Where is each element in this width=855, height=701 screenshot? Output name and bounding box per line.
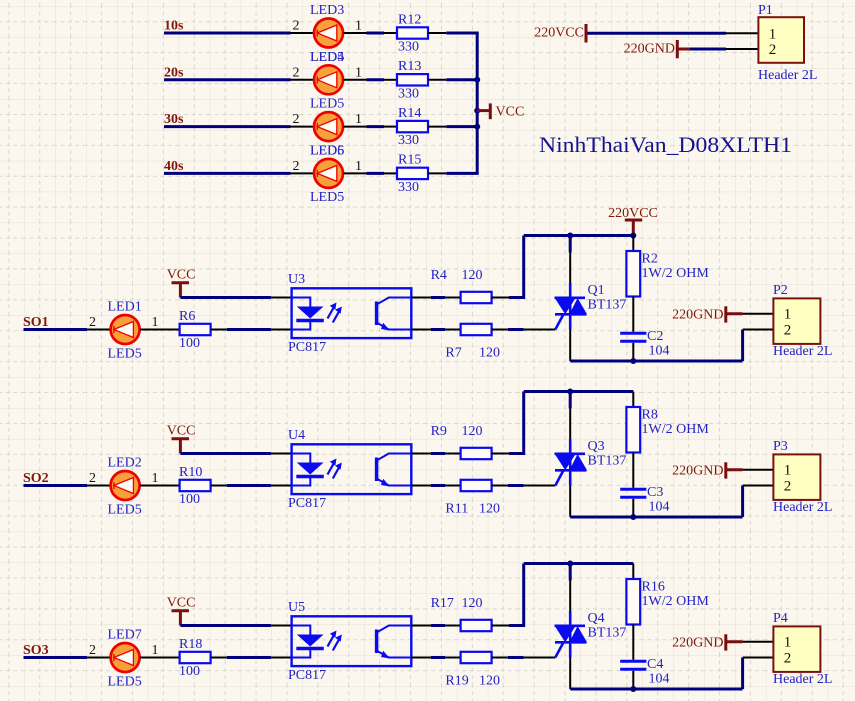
P4 pin 1 (743, 641, 774, 643)
wire R11 to Q3 gate (508, 484, 524, 487)
net label 30s (164, 112, 184, 127)
LED LED2 pin 2 (87, 471, 110, 486)
label Q4 (588, 611, 605, 626)
wire LED LED3 to R12 (367, 32, 385, 35)
wire LED LED5 to R14 (367, 125, 385, 128)
label U5 (288, 600, 305, 615)
svg-text:P2: P2 (773, 283, 788, 298)
svg-text:LED1: LED1 (108, 300, 142, 315)
label LED1 (108, 300, 142, 315)
svg-text:SO3: SO3 (23, 643, 49, 658)
svg-text:C3: C3 (647, 485, 663, 500)
svg-text:R15: R15 (398, 153, 421, 168)
wire 220GND to P1 pin 2 (690, 48, 726, 51)
svg-text:SO2: SO2 (23, 471, 49, 486)
svg-text:1: 1 (355, 65, 362, 80)
wire R9 up to rail (509, 392, 524, 456)
resistor R12 left pin (384, 32, 397, 34)
resistor R18 100 (179, 637, 211, 679)
svg-text:220GND: 220GND (672, 463, 723, 478)
LED LED3 pin 1 (344, 19, 367, 34)
svg-text:2: 2 (89, 643, 96, 658)
svg-text:NinhThaiVan_D08XLTH1: NinhThaiVan_D08XLTH1 (539, 132, 792, 157)
resistor R13 330 (397, 59, 428, 101)
U5 pin 2 (271, 657, 292, 659)
LED LED1 pin 1 (140, 315, 166, 330)
P2 pin 1 (743, 313, 774, 315)
resistor R19 right pin (492, 657, 508, 659)
wire up to P3 pin 2 (741, 486, 744, 518)
svg-text:R18: R18 (179, 637, 202, 652)
LED LED1 (111, 315, 140, 344)
svg-text:104: 104 (649, 672, 670, 687)
Q1 pin T2 top (569, 236, 572, 284)
triac Q1 BT137 (555, 283, 588, 330)
svg-text:R8: R8 (642, 408, 658, 423)
svg-text:1: 1 (784, 307, 792, 323)
junction bottom rail at C2 (630, 358, 636, 364)
svg-text:120: 120 (479, 502, 500, 517)
label LED5 footprint (108, 347, 142, 362)
resistor R8 1W/2 OHM (626, 407, 709, 453)
label LED5 footprint (108, 503, 142, 518)
LED LED6 pin 1 (344, 159, 367, 174)
svg-text:1: 1 (152, 643, 159, 658)
wire R13 to bus (446, 78, 478, 81)
resistor R9 left pin (445, 453, 461, 455)
svg-text:R4: R4 (431, 268, 447, 283)
resistor R13 left pin (384, 79, 397, 81)
svg-text:R19: R19 (445, 674, 468, 689)
resistor R16 top pin (632, 564, 634, 580)
svg-text:1W/2 OHM: 1W/2 OHM (642, 266, 710, 281)
resistor R4 left pin (445, 297, 461, 299)
wire vertical bus (476, 33, 479, 173)
title text (539, 132, 792, 157)
junction bottom rail at C3 (630, 514, 636, 520)
Q4 pin T1 bottom (569, 658, 571, 690)
wire 10s to LED (164, 32, 291, 35)
capacitor C4 104 (620, 657, 669, 687)
svg-text:120: 120 (462, 268, 483, 283)
svg-text:30s: 30s (164, 112, 184, 127)
label Q3 (588, 439, 605, 454)
power port 220VCC (net to P1) (534, 24, 586, 43)
svg-text:LED5: LED5 (310, 97, 344, 112)
svg-text:2: 2 (293, 65, 300, 80)
svg-text:2: 2 (293, 159, 300, 174)
svg-text:LED7: LED7 (108, 628, 142, 643)
LED LED3 (314, 19, 343, 48)
resistor R6 left pin (166, 329, 180, 331)
power port 220GND row SO2 (672, 462, 742, 478)
P3 pin 2 (743, 485, 774, 487)
wire 30s to LED (164, 125, 291, 128)
svg-text:220GND: 220GND (624, 41, 675, 56)
wire VCC to U5 pin 1 (180, 624, 271, 627)
svg-text:Q3: Q3 (588, 439, 605, 454)
wire bottom rail (570, 360, 742, 363)
svg-text:Header 2L: Header 2L (773, 344, 832, 359)
U3 pin 4 (411, 297, 431, 299)
svg-text:120: 120 (462, 424, 483, 439)
resistor R4 120 (431, 268, 492, 303)
Q3 pin T2 top (569, 392, 572, 440)
U4 pin 4 (411, 453, 431, 455)
svg-text:Header 2L: Header 2L (773, 500, 832, 515)
svg-text:2: 2 (89, 315, 96, 330)
wire SO3 to LED (24, 656, 88, 659)
wire up to P4 pin 2 (741, 658, 744, 690)
svg-text:2: 2 (293, 19, 300, 34)
svg-text:LED5: LED5 (108, 347, 142, 362)
wire bottom rail (570, 516, 742, 519)
svg-text:PC817: PC817 (288, 668, 326, 683)
junction bottom rail at C4 (630, 686, 636, 692)
capacitor C3 104 (620, 485, 669, 515)
resistor R15 right pin (428, 172, 446, 174)
wire U5 pin3 to R19 (431, 656, 445, 659)
svg-text:LED5: LED5 (108, 503, 142, 518)
capacitor C2 bottom pin (632, 343, 634, 361)
wire up to P2 pin 2 (741, 330, 744, 362)
resistor R8 top pin (632, 392, 634, 408)
wire R17 up to rail (509, 564, 524, 628)
svg-text:20s: 20s (164, 65, 184, 80)
svg-text:104: 104 (649, 500, 670, 515)
label U4 (288, 428, 305, 443)
resistor R15 330 (397, 153, 428, 195)
wire R12 to bus (446, 32, 478, 35)
capacitor C3 bottom pin (632, 499, 634, 517)
label PC817 (288, 340, 326, 355)
svg-text:R14: R14 (398, 106, 421, 121)
svg-text:1W/2 OHM: 1W/2 OHM (642, 422, 710, 437)
U5 pin 4 (411, 625, 431, 627)
svg-text:100: 100 (179, 492, 200, 507)
svg-text:R16: R16 (642, 580, 665, 595)
resistor R18 right pin (211, 657, 227, 659)
label Q1 (588, 283, 605, 298)
triac Q3 BT137 (555, 439, 588, 486)
U5 pin 1 (271, 625, 292, 627)
LED LED7 pin 2 (87, 643, 110, 658)
resistor R19 left pin (445, 657, 461, 659)
svg-text:R12: R12 (398, 12, 421, 27)
resistor R9 120 (431, 424, 492, 459)
LED LED2 pin 1 (140, 471, 166, 486)
optocoupler U4 PC817 (292, 444, 412, 494)
resistor R15 left pin (384, 172, 397, 174)
LED LED7 pin 1 (140, 643, 166, 658)
svg-text:120: 120 (479, 674, 500, 689)
svg-text:LED5: LED5 (108, 675, 142, 690)
resistor R10 left pin (166, 485, 180, 487)
svg-text:1W/2 OHM: 1W/2 OHM (642, 594, 710, 609)
svg-text:2: 2 (293, 112, 300, 127)
resistor R13 right pin (428, 79, 446, 81)
svg-text:100: 100 (179, 336, 200, 351)
svg-text:VCC: VCC (167, 268, 196, 283)
resistor R7 120 (445, 324, 500, 361)
resistor R12 right pin (428, 32, 446, 34)
wire U5 pin4 to R17 (431, 624, 445, 627)
svg-text:R11: R11 (445, 502, 468, 517)
svg-text:BT137: BT137 (588, 626, 627, 641)
svg-text:1: 1 (355, 19, 362, 34)
wire top rail (524, 562, 634, 565)
wire R6 to U3 pin 2 (227, 328, 271, 331)
Q4 pin T2 top (569, 564, 572, 612)
junction bus row 20s (474, 77, 480, 83)
label U3 (288, 272, 305, 287)
svg-text:SO1: SO1 (23, 315, 49, 330)
optocoupler U5 PC817 (292, 616, 412, 666)
svg-text:R6: R6 (179, 309, 195, 324)
U5 pin 3 (411, 657, 431, 659)
svg-text:104: 104 (649, 344, 670, 359)
svg-text:2: 2 (784, 478, 792, 494)
wire SO2 to LED (24, 484, 88, 487)
svg-text:LED2: LED2 (108, 456, 142, 471)
svg-text:Q4: Q4 (588, 611, 605, 626)
svg-text:2: 2 (769, 42, 777, 58)
resistor R12 330 (397, 12, 428, 54)
junction bus row 30s (474, 124, 480, 130)
connector P4 Header 2L (773, 611, 832, 687)
svg-text:40s: 40s (164, 159, 184, 174)
svg-text:2: 2 (784, 650, 792, 666)
svg-text:2: 2 (89, 471, 96, 486)
svg-text:LED4: LED4 (310, 50, 344, 65)
label LED7 (108, 628, 142, 643)
wire U3 pin4 to R4 (431, 296, 445, 299)
P1 pin 1 (726, 32, 758, 34)
resistor R17 120 (431, 596, 492, 631)
svg-text:Header 2L: Header 2L (773, 672, 832, 687)
svg-text:LED3: LED3 (310, 3, 344, 18)
resistor R14 330 (397, 106, 428, 148)
net label SO3 (23, 643, 49, 658)
svg-text:330: 330 (398, 180, 419, 195)
svg-text:R10: R10 (179, 465, 202, 480)
wire bottom rail (570, 688, 742, 691)
svg-text:VCC: VCC (167, 596, 196, 611)
connector P3 Header 2L (773, 439, 832, 515)
svg-text:220GND: 220GND (672, 307, 723, 322)
net label 40s (164, 159, 184, 174)
svg-text:330: 330 (398, 86, 419, 101)
LED LED4 pin 1 (344, 65, 367, 80)
svg-text:330: 330 (398, 133, 419, 148)
svg-text:PC817: PC817 (288, 340, 326, 355)
power port VCC row SO2 (167, 424, 196, 454)
Q3 gate pin (524, 485, 556, 487)
Q1 gate pin (524, 329, 556, 331)
LED LED5 pin 1 (344, 112, 367, 127)
wire VCC to U3 pin 1 (180, 296, 271, 299)
LED LED4 pin 2 (291, 65, 314, 80)
LED LED2 (111, 471, 140, 500)
svg-text:1: 1 (784, 635, 792, 651)
svg-text:1: 1 (784, 463, 792, 479)
svg-text:120: 120 (479, 346, 500, 361)
resistor R11 right pin (492, 485, 508, 487)
U3 pin 1 (271, 297, 292, 299)
svg-text:1: 1 (355, 112, 362, 127)
wire LED LED6 to R15 (367, 172, 385, 175)
svg-text:Header 2L: Header 2L (758, 68, 817, 83)
resistor R4 right pin (492, 297, 509, 299)
svg-text:2: 2 (784, 322, 792, 338)
resistor R6 100 (179, 309, 211, 351)
P4 pin 2 (743, 657, 774, 659)
svg-text:R9: R9 (431, 424, 447, 439)
resistor R10 100 (179, 465, 211, 507)
svg-text:VCC: VCC (167, 424, 196, 439)
resistor R10 right pin (211, 485, 227, 487)
svg-text:100: 100 (179, 664, 200, 679)
resistor R17 left pin (445, 625, 461, 627)
resistor R9 right pin (492, 453, 509, 455)
junction bus VCC tap (474, 108, 480, 114)
svg-text:R2: R2 (642, 252, 658, 267)
net label SO1 (23, 315, 49, 330)
triac Q4 BT137 (555, 611, 588, 658)
label LED5 footprint (310, 190, 344, 205)
svg-text:1: 1 (355, 159, 362, 174)
svg-text:P4: P4 (773, 611, 788, 626)
label LED2 (108, 456, 142, 471)
power port 220GND row SO1 (672, 306, 742, 322)
wire VCC to U4 pin 1 (180, 452, 271, 455)
label PC817 (288, 668, 326, 683)
svg-text:U3: U3 (288, 272, 305, 287)
wire top rail (524, 390, 634, 393)
wire R4 up to rail (509, 236, 524, 300)
wire SO1 to LED (24, 328, 88, 331)
P3 pin 1 (743, 469, 774, 471)
wire 20s to LED (164, 78, 291, 81)
svg-text:1: 1 (152, 315, 159, 330)
wire R10 to U4 pin 2 (227, 484, 271, 487)
wire 40s to LED (164, 172, 291, 175)
U4 pin 3 (411, 485, 431, 487)
wire R14 to bus (446, 125, 478, 128)
power port VCC row SO1 (167, 268, 196, 298)
resistor R8 bottom pin (632, 453, 634, 488)
power port 220GND row SO3 (672, 634, 742, 650)
net label 10s (164, 19, 184, 34)
P1 pin 2 (726, 48, 758, 50)
svg-text:LED6: LED6 (310, 143, 344, 158)
P2 pin 2 (743, 329, 774, 331)
wire U3 pin3 to R7 (431, 328, 445, 331)
wire R7 to Q1 gate (508, 328, 524, 331)
resistor R11 120 (445, 480, 500, 517)
Q3 pin T1 bottom (569, 486, 571, 518)
optocoupler U3 PC817 (292, 288, 412, 338)
resistor R19 120 (445, 652, 500, 689)
power port VCC (top group) (477, 103, 524, 119)
wire R19 to Q4 gate (508, 656, 524, 659)
label BT137 (588, 298, 627, 313)
resistor R14 right pin (428, 126, 446, 128)
svg-text:R17: R17 (431, 596, 454, 611)
U4 pin 2 (271, 485, 292, 487)
svg-text:R7: R7 (445, 346, 461, 361)
label LED5 (310, 97, 344, 112)
resistor R14 left pin (384, 126, 397, 128)
net label SO2 (23, 471, 49, 486)
resistor R16 1W/2 OHM (626, 579, 709, 625)
svg-text:220VCC: 220VCC (534, 26, 584, 41)
power port VCC row SO3 (167, 596, 196, 626)
wire top rail (524, 234, 634, 237)
wire U4 pin3 to R11 (431, 484, 445, 487)
junction rail at Q4 (567, 561, 573, 567)
power port 220VCC row SO1 (608, 206, 658, 236)
resistor R11 left pin (445, 485, 461, 487)
LED LED1 pin 2 (87, 315, 110, 330)
wire U4 pin4 to R9 (431, 452, 445, 455)
LED LED6 pin 2 (291, 159, 314, 174)
resistor R2 top pin (632, 236, 634, 252)
resistor R2 bottom pin (632, 297, 634, 332)
label BT137 (588, 454, 627, 469)
wire 220VCC to P1 pin 1 (588, 32, 727, 35)
LED LED5 pin 2 (291, 112, 314, 127)
LED LED3 pin 2 (291, 19, 314, 34)
resistor R17 right pin (492, 625, 509, 627)
LED LED5 (314, 112, 343, 141)
junction rail at R load (630, 233, 636, 239)
svg-text:R13: R13 (398, 59, 421, 74)
label LED4 overlapped LED5 (310, 50, 344, 65)
label LED6 overlapped LED5 (310, 143, 344, 158)
svg-text:U5: U5 (288, 600, 305, 615)
svg-text:PC817: PC817 (288, 496, 326, 511)
U3 pin 2 (271, 329, 292, 331)
svg-text:220GND: 220GND (672, 635, 723, 650)
junction rail at Q1 (567, 233, 573, 239)
svg-text:330: 330 (398, 40, 419, 55)
Q4 gate pin (524, 657, 556, 659)
wire LED LED4 to R13 (367, 78, 385, 81)
connector P2 Header 2L (773, 283, 832, 359)
resistor R18 left pin (166, 657, 180, 659)
svg-text:BT137: BT137 (588, 298, 627, 313)
wire R18 to U5 pin 2 (227, 656, 271, 659)
svg-text:C2: C2 (647, 329, 663, 344)
capacitor C4 bottom pin (632, 671, 634, 689)
svg-text:U4: U4 (288, 428, 305, 443)
svg-text:1: 1 (152, 471, 159, 486)
svg-text:BT137: BT137 (588, 454, 627, 469)
U4 pin 1 (271, 453, 292, 455)
svg-text:LED5: LED5 (310, 190, 344, 205)
svg-text:10s: 10s (164, 19, 184, 34)
capacitor C2 104 (620, 329, 669, 359)
svg-text:Q1: Q1 (588, 283, 605, 298)
label LED5 footprint (108, 675, 142, 690)
resistor R6 right pin (211, 329, 227, 331)
label PC817 (288, 496, 326, 511)
wire R15 to bus (446, 172, 478, 175)
connector P1 Header 2L (758, 3, 817, 83)
label BT137 (588, 626, 627, 641)
svg-text:120: 120 (462, 596, 483, 611)
